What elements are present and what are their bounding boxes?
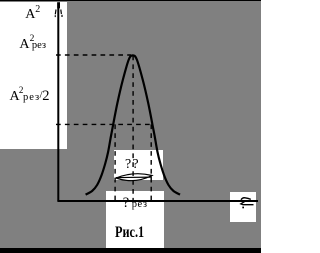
dashed vertical at right half-power point [150, 124, 152, 200]
width double-arrow lens between half-power points [116, 174, 152, 181]
label A^2 : superscript 2 [35, 5, 40, 15]
label A^2_rez/2 : slash [40, 90, 43, 101]
dashed vertical at left half-power point [114, 124, 116, 200]
dashed vertical at resonance peak [132, 56, 134, 201]
white box behind ?? label [114, 150, 163, 180]
label A^2_rez/2 : denominator 2 [42, 89, 49, 104]
label A^2_rez/2 : superscript 2 [19, 86, 24, 95]
y-axis arrowhead [57, 2, 60, 8]
label A^2_rez/2 : subscript rez [23, 93, 40, 104]
label A^2_rez/2 : A [10, 90, 20, 104]
dashed level line A^2_rez [56, 54, 131, 56]
caption Ris.1 [115, 225, 144, 241]
rotated ? glyph at x-axis end (omega label artifact) [241, 198, 251, 200]
dashed level line A^2_rez/2 [56, 123, 153, 125]
label A^2_rez : superscript 2 [30, 35, 35, 45]
bottom black bar [0, 248, 261, 253]
top border line [0, 0, 261, 1]
y-axis [57, 3, 59, 202]
white strip behind y-axis labels [0, 2, 67, 149]
label A^2 : A [25, 8, 35, 22]
label A^2_rez : A [19, 38, 29, 52]
label A^2_rez : subscript rez [32, 41, 46, 52]
lens arrow shaft [116, 176, 152, 179]
label ? rez under axis : rez [132, 200, 148, 211]
white box behind ? rez and Ris.1 caption [106, 191, 164, 248]
white box behind rotated ? at axis end [230, 192, 256, 222]
resonance curve [86, 55, 180, 194]
x-axis [57, 200, 258, 202]
label ?? (bandwidth, failed glyphs) [125, 158, 140, 172]
label ? rez under axis : ? [123, 196, 129, 211]
